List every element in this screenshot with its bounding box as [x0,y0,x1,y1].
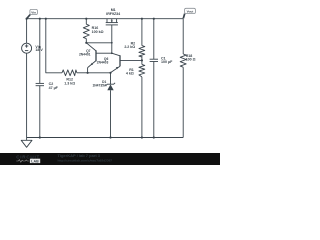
MOSFET M1 IRF9Z34 [106,19,108,23]
node A R16 Q7 collector [85,42,87,44]
wire C1 branch top [153,19,155,60]
value label V1 Vin 18V [35,45,43,52]
footer bar [0,153,220,165]
wire top rail Vin to Vout corner [27,18,184,20]
wire Vout drop to R18 [182,19,184,54]
wire bottom rail [27,137,184,139]
wire Q6 base to R2 R1 junction [120,59,142,61]
junction Q6 emitter D1 [109,72,111,74]
node Vin flag box [30,9,38,14]
svg-text:Vin: Vin [31,10,36,14]
svg-text:2N4401: 2N4401 [79,53,91,57]
junction Q7 emitter R12 [87,72,89,74]
value label Q7 [79,49,91,57]
svg-text:18 V: 18 V [35,48,43,52]
resistor R16 [85,19,87,25]
value label Q6 [97,57,109,64]
junction rail C2 branch [39,18,41,20]
voltage source V1 bottom lead [26,53,28,137]
junction Vin rail at source [26,18,28,20]
svg-text:LAB: LAB [31,159,39,163]
svg-text:IRF9Z34: IRF9Z34 [106,12,120,16]
value label C2 [49,82,59,90]
svg-text:1.3 kΩ: 1.3 kΩ [64,82,75,86]
svg-text:http://circuitlab.com/c/wac7a9: http://circuitlab.com/c/wac7a92d2367 [58,158,113,162]
svg-text:4 kΩ: 4 kΩ [126,71,134,75]
transistor Q6 2N4403 [119,55,121,66]
wire R12 to Q7 emitter node [77,72,88,74]
value label R2 [124,42,135,50]
wire C2 bottom [39,86,41,138]
capacitor C1 [150,58,158,60]
node Vout flag pointer [183,14,184,19]
svg-text:2N4403: 2N4403 [97,61,109,65]
capacitor C2 [36,82,44,84]
svg-text:100 Ω: 100 Ω [186,57,196,61]
resistor R1 [139,64,145,77]
voltage source V1 (Vin 18 V) [22,43,32,53]
junction bottom rail D1 [109,136,111,138]
wire R18 bottom to bottom rail [182,67,184,137]
value label R12 [64,78,75,86]
svg-text:2.2 kΩ: 2.2 kΩ [124,45,135,49]
junction R2 R1 Q6 base [141,59,143,61]
svg-text:100 kΩ: 100 kΩ [92,30,104,34]
junction bottom rail C2 [39,136,41,138]
svg-text:100 µF: 100 µF [161,60,173,64]
node Vin flag pointer [27,15,30,19]
wire node A to M1 gate line [86,42,112,44]
junction bottom rail R1 [141,136,143,138]
resistor R2 [141,19,143,46]
wire Q7 emitter node to D1 node [88,72,111,74]
value label R16 [92,26,104,34]
wire C1 bottom [153,62,155,138]
value label D1 [92,80,107,88]
voltage source V1 top lead [26,19,28,44]
svg-text:47 µF: 47 µF [49,86,59,90]
resistor R18 [180,54,186,67]
diode D1 1N4735A zener [110,73,112,84]
value label C1 [161,57,173,65]
node Vout flag box [185,8,196,13]
junction rail R16 branch [85,18,87,20]
junction Q7 base Q6 collector gate [111,52,113,54]
ground [26,138,28,141]
wire C2 branch top [39,19,41,84]
junction rail C1 branch [153,18,155,20]
value label R18 [186,54,196,62]
resistor R12 [62,70,77,76]
value label M1 [106,8,120,16]
wire M1 gate vertical [111,25,113,53]
svg-text:Vout: Vout [187,9,194,13]
wire R16 bottom to node A [85,39,87,43]
wire Q7 base to gate line [96,52,112,54]
wire R1 bottom [141,77,143,138]
junction gate wire node A branch [111,42,113,44]
svg-text:1N4735A: 1N4735A [92,84,107,88]
value label R1 [126,68,134,76]
wire R12 branch drop from rail [46,19,62,73]
junction rail R12 branch [45,18,47,20]
transistor Q7 2N4401 [95,50,97,61]
junction rail R2 branch [141,18,143,20]
junction bottom rail C1 [153,136,155,138]
